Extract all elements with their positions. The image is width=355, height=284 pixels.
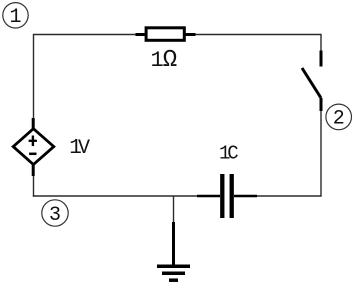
wire top-left horizontal <box>34 34 137 36</box>
wire left vertical <box>33 34 35 118</box>
resistor R1 <box>136 28 196 41</box>
ground <box>157 196 190 280</box>
label 1C <box>219 143 239 165</box>
switch S1 <box>302 51 321 112</box>
svg-text:V: V <box>78 137 90 160</box>
node 3 <box>42 200 68 227</box>
node 1 <box>3 3 28 29</box>
wire bottom right <box>257 195 322 197</box>
node 2 <box>326 104 352 131</box>
svg-text:1: 1 <box>9 6 21 29</box>
svg-text:3: 3 <box>49 204 61 227</box>
wire top-right horizontal <box>196 34 322 36</box>
wire bottom left <box>33 195 198 197</box>
svg-text:1: 1 <box>151 48 164 73</box>
label 1 Ohm <box>151 47 178 74</box>
label 1V <box>69 137 90 160</box>
capacitor C1 <box>197 174 257 218</box>
svg-text:C: C <box>227 143 238 165</box>
voltage source V1 <box>13 118 54 176</box>
svg-text:Ω: Ω <box>163 47 177 74</box>
wire switch top vertical <box>320 34 322 51</box>
wire right vertical <box>320 111 322 196</box>
wire below source <box>33 176 35 197</box>
svg-text:2: 2 <box>333 108 345 131</box>
